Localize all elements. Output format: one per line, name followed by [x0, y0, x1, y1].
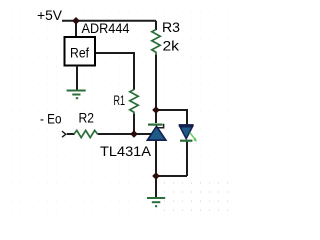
wire R2 input lead — [67, 133, 75, 135]
ground bottom — [147, 176, 165, 206]
TL431A shunt reference D1 — [147, 124, 166, 140]
wire R1 bottom lead — [133, 114, 135, 135]
svg-text:+5V: +5V — [37, 7, 63, 23]
svg-text:TL431A: TL431A — [100, 143, 152, 159]
svg-text:R3: R3 — [162, 19, 180, 35]
wire Ref top pin — [75, 21, 77, 37]
resistor R3 — [152, 30, 160, 56]
junction dot node ref — [130, 130, 138, 138]
wire bottom rail LED to ground node — [156, 175, 187, 177]
wire TL431A anode to ground node — [155, 141, 157, 177]
svg-text:- Eo: - Eo — [40, 111, 62, 127]
voltage reference U1 ADR444 box — [65, 37, 96, 66]
input terminal -Eo — [62, 131, 66, 137]
wire TL431A cathode — [155, 110, 157, 123]
junction dot node cathode — [152, 106, 160, 114]
wire R3 bottom lead to node — [155, 55, 157, 112]
junction dot node ground — [152, 172, 160, 180]
wire R2 to TL431A ref node — [98, 133, 153, 135]
svg-text:Ref: Ref — [70, 45, 89, 61]
resistor R2 — [74, 130, 98, 137]
svg-text:ADR444: ADR444 — [82, 20, 130, 36]
ground under Ref — [67, 66, 86, 99]
wire top rail +5V to R3 — [62, 20, 156, 22]
junction dot node +5V tap — [72, 17, 80, 25]
svg-text:2k: 2k — [163, 38, 181, 54]
svg-text:R2: R2 — [79, 110, 95, 126]
wire Ref output to R1 — [95, 53, 134, 90]
svg-text:R1: R1 — [114, 92, 126, 108]
wire LED anode lead — [186, 142, 188, 177]
LED D2 — [179, 125, 197, 142]
wire R3 top lead — [155, 21, 157, 30]
resistor R1 — [130, 90, 138, 115]
wire branch to LED — [156, 110, 187, 125]
